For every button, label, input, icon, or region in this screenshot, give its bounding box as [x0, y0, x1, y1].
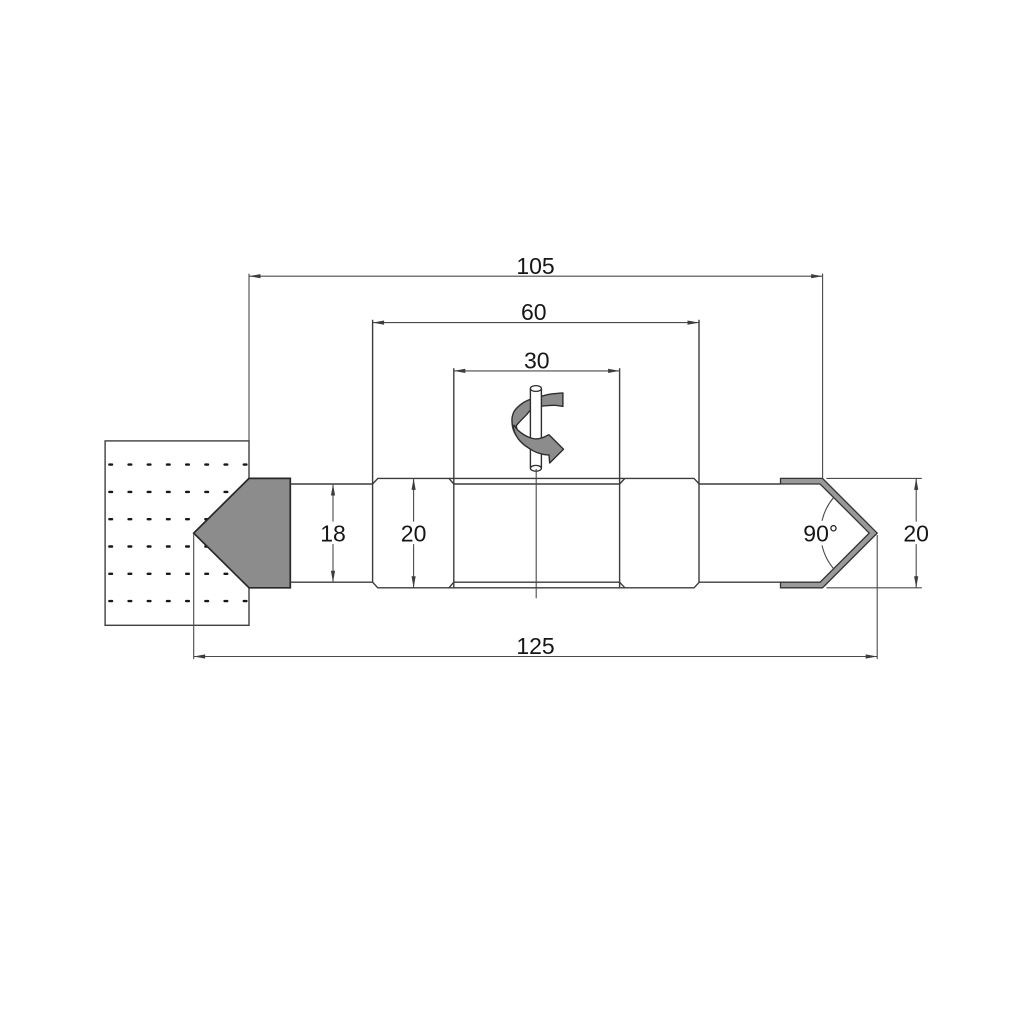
125 arrows: [194, 654, 206, 658]
dim line 30: [454, 370, 620, 372]
20 right arrows: [914, 478, 918, 490]
18 arrows: [331, 484, 335, 496]
svg-text:125: 125: [516, 633, 554, 659]
shaft step edge at x=372.6 with 60-dim extension: [372, 320, 374, 582]
20 mid arrows: [412, 478, 416, 490]
dim line 125: [194, 656, 878, 658]
rotation axis pin: [530, 386, 541, 472]
right 20 bottom extension: [827, 587, 922, 589]
thread boundary at x=619.6 with 30-dim extension: [619, 368, 621, 588]
svg-text:60: 60: [521, 299, 547, 325]
thread root lines: [449, 478, 625, 484]
dim line 18: [332, 484, 334, 582]
30 arrows: [454, 369, 466, 373]
carbide insert thick V: [781, 478, 878, 587]
svg-text:18: 18: [320, 520, 346, 546]
90 degree angle arc: [821, 498, 834, 569]
svg-text:20: 20: [903, 520, 929, 546]
text halo boxes: [319, 521, 930, 546]
tool head pentagon: [194, 478, 291, 587]
svg-text:105: 105: [516, 253, 554, 279]
125 right extension from insert tip: [876, 535, 878, 659]
dimension lines: [194, 276, 917, 656]
rotation ribbon arrow (front band with arrowhead): [513, 425, 563, 463]
125 left extension from tool tip: [193, 533, 195, 659]
dim line 20 mid: [413, 478, 415, 587]
extension lines: [194, 274, 922, 659]
svg-text:30: 30: [524, 347, 550, 373]
shaft step edge at x=699.0 with 60-dim extension: [698, 320, 700, 582]
105 left extension (workpiece right edge up): [248, 274, 250, 441]
105 right extension: [822, 274, 824, 478]
right 20 top extension: [827, 477, 922, 479]
workpiece dash hatch pattern: [108, 463, 247, 602]
svg-text:20: 20: [401, 520, 427, 546]
svg-text:90°: 90°: [803, 520, 838, 546]
thread boundary at x=453.8 with 30-dim extension: [453, 368, 455, 588]
60 arrows: [373, 321, 385, 325]
dimension texts: [320, 253, 929, 659]
dim line 60: [373, 322, 699, 324]
rotation ribbon arrow (back band): [512, 393, 563, 439]
dimension arrowheads: [194, 274, 919, 658]
dim line 105: [249, 275, 823, 277]
workpiece block: [105, 441, 249, 625]
dim line 20 right: [915, 478, 917, 587]
shaft outline: [290, 320, 780, 588]
105 arrows: [249, 274, 261, 278]
shaft centerline: [535, 469, 537, 598]
